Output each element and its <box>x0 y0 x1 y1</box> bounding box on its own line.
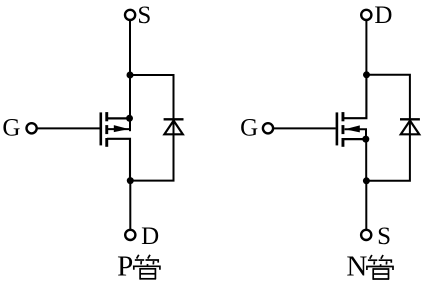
junction node: drain/diode rejoin <box>127 177 134 184</box>
wire bottom junction to D terminal <box>129 181 131 230</box>
terminal G (N-FET gate pin) <box>263 123 273 133</box>
wire source tie down to bottom junction <box>365 139 367 181</box>
MOSFET Q2 channel body segment <box>342 125 345 134</box>
svg-text:G: G <box>240 115 258 142</box>
wire bottom junction to S terminal <box>365 181 367 229</box>
wire D terminal to top junction <box>365 21 367 75</box>
MOSFET Q1 channel source segment <box>105 112 108 121</box>
wire diode branch (right loop of N-FET) <box>367 75 410 181</box>
wire diode branch (right loop of P-FET) <box>130 75 174 181</box>
body diode of Q1: anode triangle (hollow, pointing up) <box>164 121 182 135</box>
wire S terminal to top junction <box>129 21 131 75</box>
svg-text:P: P <box>117 250 133 282</box>
junction node: body-source tie (dot) <box>126 115 133 122</box>
wire body line of Q1 <box>108 128 130 130</box>
junction node: source/diode split <box>127 72 134 79</box>
body diode of Q2: anode triangle (hollow, pointing up) <box>401 121 419 135</box>
junction node: drain/diode split <box>363 71 370 78</box>
junction node: body-source tie (dot) <box>362 136 369 143</box>
terminal G (P-FET gate pin) <box>27 123 37 133</box>
wire body tie stub <box>129 118 131 131</box>
wire source contact of Q2 <box>343 138 366 140</box>
wire drain contact of Q2 (corner, down then left) <box>343 75 366 118</box>
svg-text:D: D <box>141 223 159 250</box>
svg-text:S: S <box>137 2 151 29</box>
junction node: source/diode rejoin <box>363 177 370 184</box>
wire body line of Q2 with stub down <box>345 129 366 139</box>
caption glyph 管 (P tube) <box>134 255 160 280</box>
body arrow of Q2 (points left = N-channel) <box>345 125 360 132</box>
wire G terminal to gate bar <box>274 127 336 129</box>
MOSFET Q2 channel drain segment <box>342 112 345 121</box>
MOSFET Q2 gate bar <box>336 112 339 145</box>
MOSFET Q1 channel body segment <box>105 125 108 134</box>
MOSFET Q1 channel drain segment <box>105 138 108 147</box>
svg-text:D: D <box>374 2 392 29</box>
wire top junction down to body-tie node <box>129 75 131 118</box>
svg-text:G: G <box>2 115 20 142</box>
terminal D (N-FET drain pin) <box>361 10 371 20</box>
caption glyph 管 (N tube) <box>367 255 393 280</box>
terminal D (P-FET drain pin) <box>125 230 135 240</box>
wire G terminal to gate bar <box>37 127 99 129</box>
wire drain contact of Q1 down to bottom junction <box>107 139 130 181</box>
body arrow of Q1 (points right = P-channel) <box>114 125 129 132</box>
body diode of Q2: cathode bar <box>400 118 420 120</box>
MOSFET Q2 channel source segment <box>342 138 345 147</box>
svg-text:N: N <box>346 250 367 282</box>
terminal S (N-FET source pin) <box>361 230 371 240</box>
terminal S (P-FET source pin) <box>125 10 135 20</box>
svg-text:S: S <box>377 223 391 250</box>
wire source contact of Q1 <box>107 117 130 119</box>
MOSFET Q1 gate bar <box>100 112 103 145</box>
body diode of Q1: cathode bar <box>164 118 184 120</box>
